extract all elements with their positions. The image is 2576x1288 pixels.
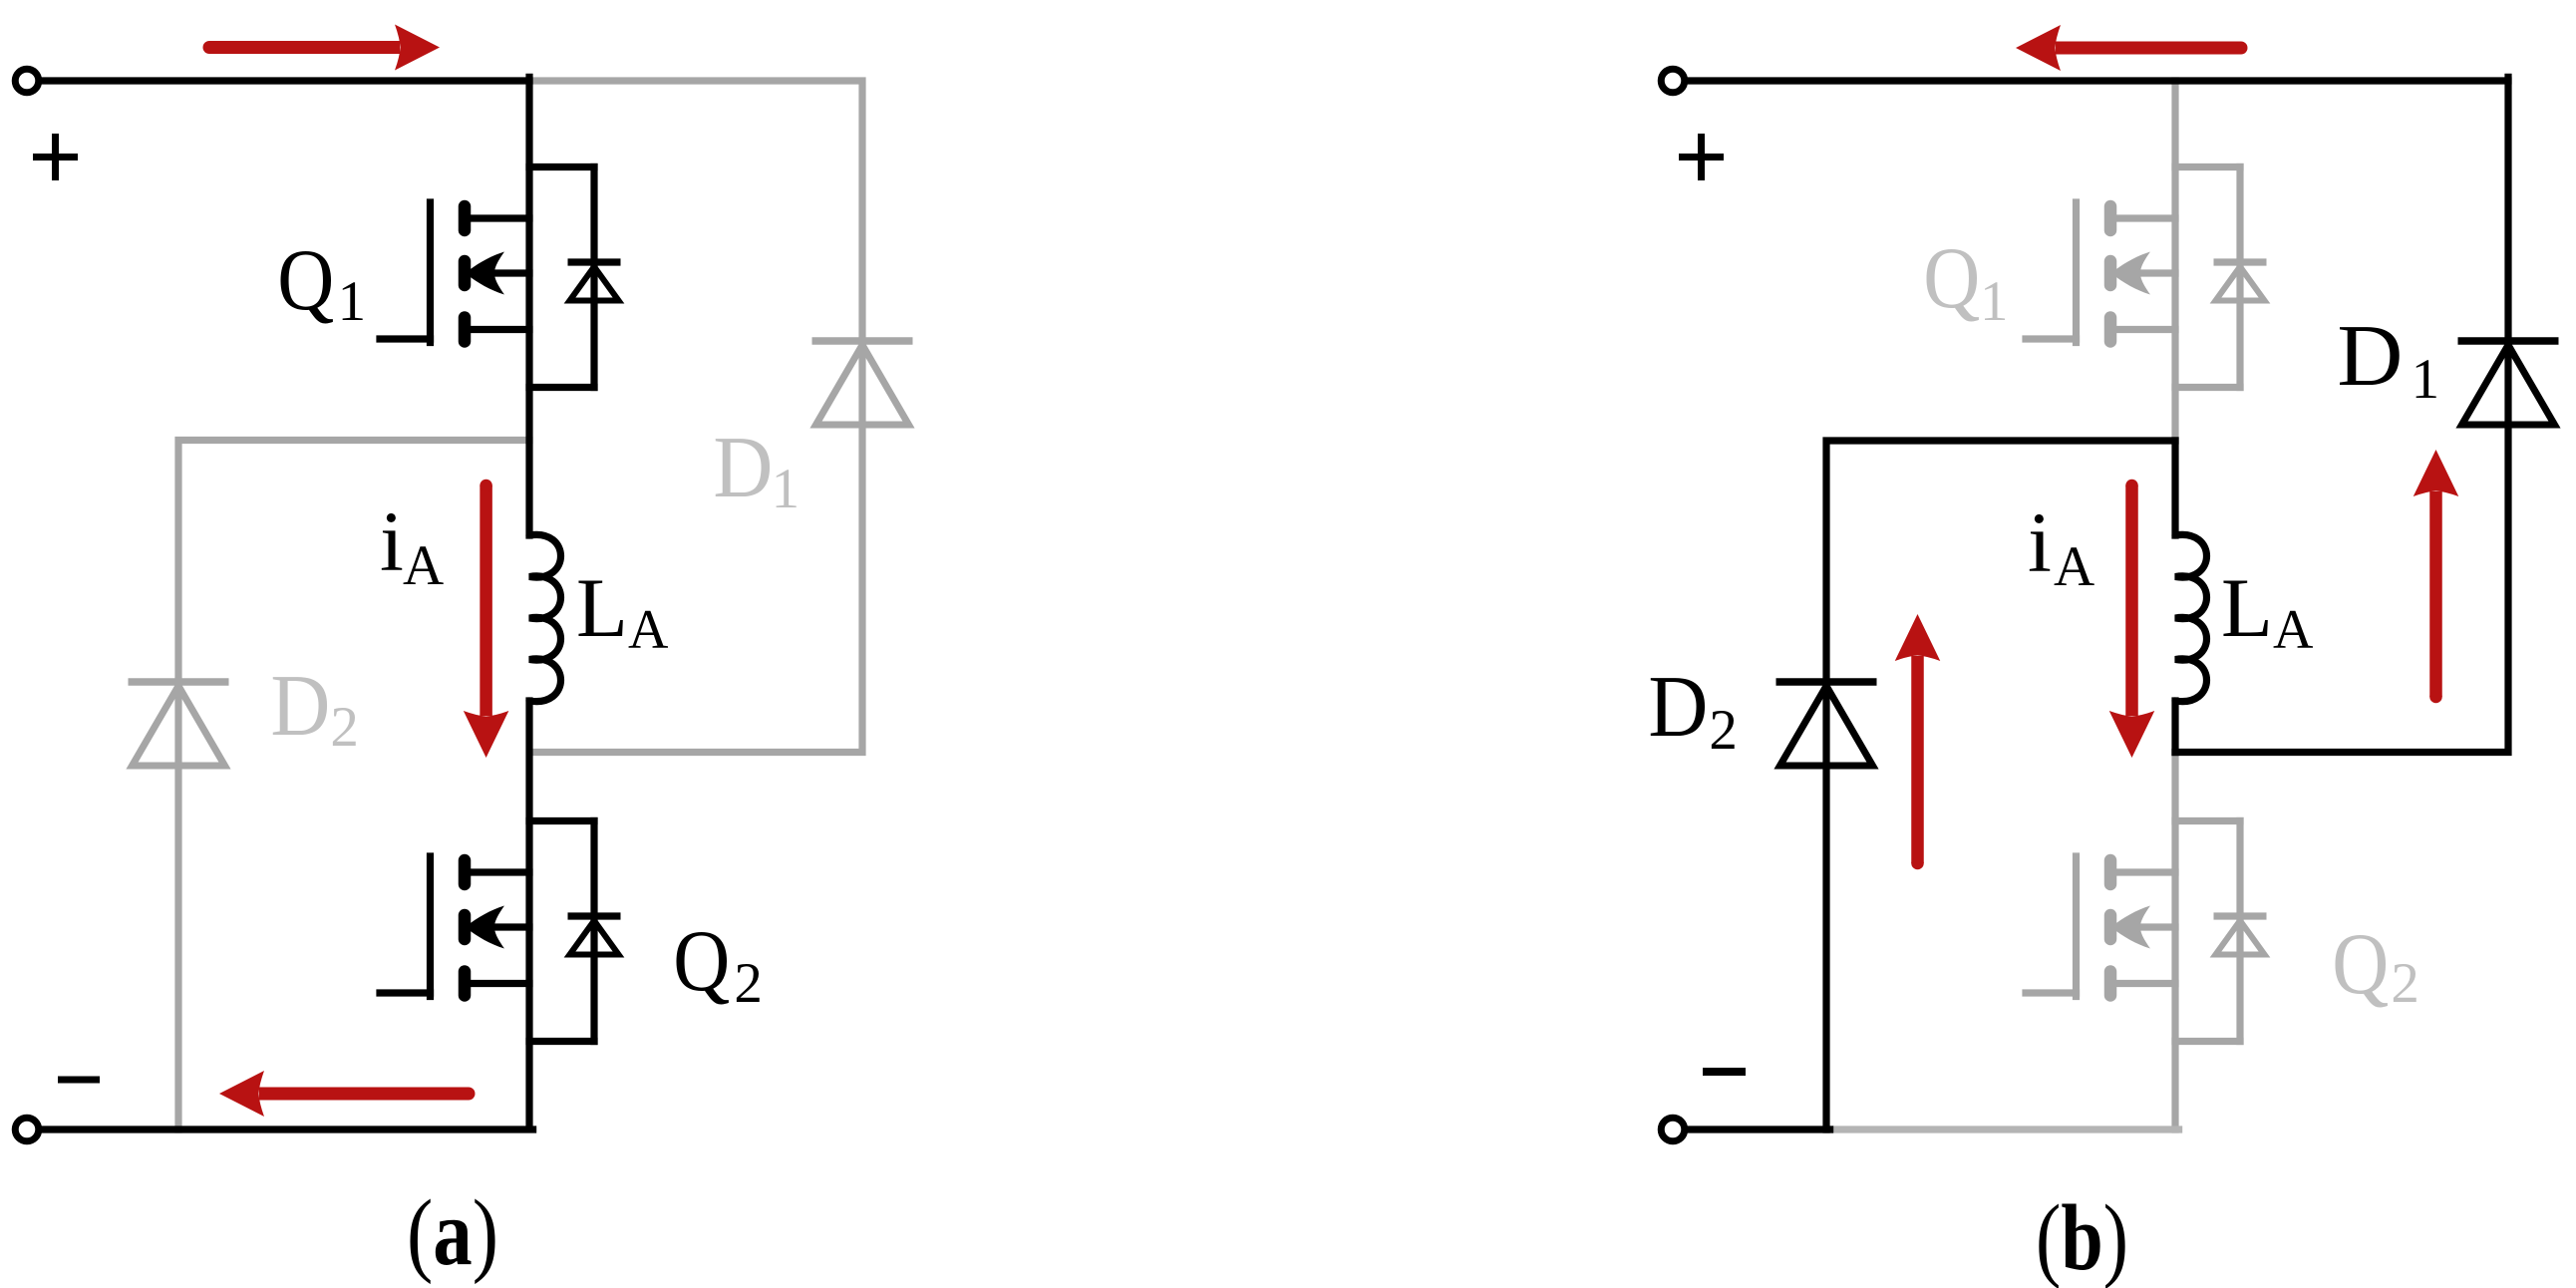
- transistor Q1 (b, grey/off): gate lead: [2026, 335, 2077, 342]
- transistor Q1 (b, grey/off): source lead: [2115, 326, 2175, 333]
- caption (b): [2036, 1186, 2128, 1288]
- transistor Q2 (b, grey/off): gate line: [2073, 856, 2080, 997]
- label Q1 (b, grey): [1923, 230, 2008, 333]
- wire: mid horizontal to D2 (b): [1826, 441, 2175, 678]
- transistor Q2 (b, grey/off): body arrow: [2111, 906, 2151, 949]
- transistor Q1 (a): body contact bar: [459, 261, 472, 285]
- label Q2 (b, grey): [2332, 916, 2419, 1015]
- wire: top rail (a), grey continuation to D1 branch: [532, 81, 862, 337]
- current arrow: iA through inductor (a), pointing down: [464, 480, 509, 758]
- transistor Q1 (a): drain lead: [470, 214, 529, 221]
- svg-text:L: L: [2221, 561, 2273, 655]
- current arrow: through D2 (b), pointing up: [1895, 614, 1941, 869]
- svg-text:Q: Q: [1923, 230, 1980, 327]
- label LA (b): [2221, 561, 2314, 661]
- svg-text:L: L: [576, 561, 628, 655]
- svg-text:(b): (b): [2036, 1186, 2128, 1288]
- diode D2 (b): anode triangle: [1780, 686, 1873, 766]
- transistor Q2 (a): source stub: [529, 1038, 594, 1045]
- inductor LA (a) coil: [529, 534, 561, 701]
- transistor Q2 (a): body-diode branch wire: [590, 821, 597, 1042]
- svg-text:Q: Q: [2332, 916, 2389, 1013]
- current arrow: iA through inductor (b), pointing down: [2109, 480, 2155, 758]
- transistor Q1 (b, grey/off): drain lead: [2115, 214, 2175, 221]
- wire: bottom rail (a): [41, 1126, 533, 1132]
- transistor Q2 (a): source lead: [470, 980, 529, 987]
- diode D1 (a, grey/off): cathode bar: [812, 337, 913, 345]
- transistor Q2 (b, grey/off): drain lead: [2115, 868, 2175, 875]
- diode D2 (b): cathode bar: [1776, 678, 1877, 686]
- wire: grey Q1 drain vertical (b): [2171, 81, 2178, 441]
- caption (a): [407, 1181, 498, 1285]
- svg-text:1: 1: [2412, 348, 2440, 411]
- transistor Q1 (a): body arrow: [466, 252, 505, 295]
- transistor Q2 (b, grey/off): body-diode cathode bar: [2214, 912, 2267, 919]
- node: - terminal (b): [1661, 1118, 1685, 1141]
- transistor Q2 (a): gate lead: [380, 989, 431, 996]
- transistor Q2 (a): gate line: [427, 856, 434, 997]
- wire: D2 branch lower vertical (b): [1822, 686, 1829, 1129]
- svg-text:2: 2: [2391, 952, 2419, 1015]
- inductor LA (b) coil: [2175, 534, 2207, 701]
- polarity + sign (b): [1679, 134, 1724, 180]
- label D1 (b): [2337, 308, 2439, 411]
- transistor Q1 (a): drain contact bar: [459, 206, 472, 230]
- svg-text:D: D: [1648, 659, 1708, 756]
- polarity - sign (a): [58, 1077, 100, 1084]
- transistor Q1 (b, grey/off): source stub: [2175, 384, 2240, 391]
- wire: below inductor (b): [2171, 701, 2178, 753]
- svg-text:i: i: [2028, 494, 2052, 590]
- wire: right D1 branch upper (b): [2504, 77, 2511, 337]
- transistor Q2 (a): drain lead: [470, 868, 529, 875]
- transistor Q1 (a): source contact bar: [459, 318, 472, 342]
- svg-text:A: A: [2054, 535, 2094, 598]
- svg-text:Q: Q: [673, 913, 730, 1010]
- transistor Q2 (b, grey/off): drain stub: [2175, 817, 2240, 824]
- transistor Q1 (b, grey/off): drain contact bar: [2104, 206, 2117, 230]
- transistor Q1 (a): drain stub: [529, 163, 594, 170]
- transistor Q2 (b, grey/off): gate lead: [2026, 989, 2077, 996]
- transistor Q1 (a): gate line: [427, 202, 434, 343]
- diode D1 (b): anode triangle: [2462, 345, 2555, 425]
- label D2 (a, grey): [270, 658, 359, 759]
- wire: D2 loop lower vertical (a): [174, 686, 181, 1129]
- transistor Q2 (a): body-diode triangle: [570, 921, 619, 955]
- current arrow: through D1 (b), pointing up: [2414, 450, 2459, 703]
- transistor Q2 (a): drain contact bar: [459, 860, 472, 884]
- svg-text:D: D: [2337, 308, 2403, 405]
- wire: top rail (b): [1687, 77, 2508, 84]
- svg-text:2: 2: [330, 696, 359, 759]
- label LA (a): [576, 561, 669, 661]
- diode D2 (a, grey/off): cathode bar: [129, 678, 229, 686]
- transistor Q2 (b, grey/off): body-diode branch wire: [2236, 821, 2243, 1042]
- polarity - sign (b): [1703, 1068, 1746, 1076]
- wire: main vertical mid with inductor (b): [2171, 441, 2178, 535]
- wire: main vertical lower (a): [525, 701, 532, 1126]
- diode D1 (b): cathode bar: [2458, 337, 2559, 345]
- wire: light grey bottom return (b): [1828, 1126, 2179, 1132]
- transistor Q2 (b, grey/off): body contact bar: [2104, 915, 2117, 939]
- label iA (a): [380, 493, 444, 597]
- svg-text:Q: Q: [277, 232, 334, 329]
- transistor Q1 (b, grey/off): body contact bar: [2104, 261, 2117, 285]
- wire: bottom rail black (b): [1687, 1126, 1830, 1132]
- transistor Q2 (a): body arrow: [466, 906, 505, 949]
- diode D1 (a, grey/off): anode triangle: [816, 345, 909, 425]
- transistor Q2 (b, grey/off): body-diode triangle: [2216, 921, 2265, 955]
- transistor Q1 (b, grey/off): body lead: [2138, 269, 2175, 276]
- polarity + sign (a): [33, 134, 78, 180]
- transistor Q2 (b, grey/off): drain contact bar: [2104, 860, 2117, 884]
- transistor Q2 (b, grey/off): source stub: [2175, 1038, 2240, 1045]
- transistor Q1 (b, grey/off): body-diode cathode bar: [2214, 258, 2267, 265]
- transistor Q2 (b, grey/off): source contact bar: [2104, 972, 2117, 996]
- transistor Q1 (b, grey/off): drain stub: [2175, 163, 2240, 170]
- transistor Q1 (b, grey/off): gate line: [2073, 202, 2080, 343]
- wire: right D1 branch lower + bottom of loop (b): [2175, 345, 2508, 753]
- svg-text:A: A: [403, 534, 444, 597]
- svg-text:1: 1: [338, 270, 367, 333]
- svg-text:D: D: [270, 658, 330, 755]
- wire: D1 loop lower segment (a): [531, 345, 862, 753]
- svg-text:1: 1: [772, 458, 801, 520]
- wire: main vertical upper (a): [525, 77, 532, 535]
- transistor Q2 (a): body-diode cathode bar: [568, 912, 621, 919]
- svg-text:A: A: [628, 599, 669, 661]
- transistor Q2 (b, grey/off): source lead: [2115, 980, 2175, 987]
- label D1 (a, grey): [713, 420, 800, 520]
- svg-text:A: A: [2273, 599, 2314, 661]
- node: - terminal (a): [15, 1118, 39, 1141]
- current arrow: top rail (b), pointing left: [2016, 25, 2248, 71]
- current arrow: return current bottom (a), pointing left: [219, 1071, 476, 1117]
- wire: D2 loop (a): top horizontal and left vertical: [178, 441, 529, 679]
- transistor Q2 (a): body lead: [492, 923, 529, 930]
- label Q1 (a): [277, 232, 366, 333]
- transistor Q1 (a): gate lead: [380, 335, 431, 342]
- node: + terminal (a): [15, 69, 39, 93]
- transistor Q2 (a): source contact bar: [459, 972, 472, 996]
- transistor Q2 (a): drain stub: [529, 817, 594, 824]
- transistor Q1 (b, grey/off): source contact bar: [2104, 318, 2117, 342]
- transistor Q1 (a): body-diode cathode bar: [568, 258, 621, 265]
- wire: grey Q2 source vertical (b): [2171, 753, 2178, 1130]
- wire: top rail (a) black: [41, 77, 529, 84]
- diode D2 (a, grey/off): anode triangle: [133, 686, 225, 766]
- transistor Q1 (a): source lead: [470, 326, 529, 333]
- transistor Q1 (a): source stub: [529, 384, 594, 391]
- transistor Q1 (a): body-diode branch wire: [590, 167, 597, 388]
- svg-text:D: D: [713, 420, 773, 516]
- svg-text:2: 2: [1709, 699, 1738, 762]
- svg-text:1: 1: [1980, 270, 2009, 333]
- node: + terminal (b): [1661, 69, 1685, 93]
- svg-text:i: i: [380, 493, 404, 589]
- transistor Q1 (b, grey/off): body-diode branch wire: [2236, 167, 2243, 388]
- transistor Q1 (a): body-diode triangle: [570, 267, 619, 301]
- current arrow: input current top (a), pointing right: [203, 25, 441, 71]
- label Q2 (a): [673, 913, 763, 1015]
- transistor Q1 (b, grey/off): body-diode triangle: [2216, 267, 2265, 301]
- transistor Q2 (b, grey/off): body lead: [2138, 923, 2175, 930]
- label iA (b): [2028, 494, 2094, 598]
- svg-text:2: 2: [734, 952, 763, 1015]
- label D2 (b): [1648, 659, 1738, 762]
- transistor Q1 (a): body lead: [492, 269, 529, 276]
- transistor Q1 (b, grey/off): body arrow: [2111, 252, 2151, 295]
- svg-text:(a): (a): [407, 1181, 498, 1285]
- transistor Q2 (a): body contact bar: [459, 915, 472, 939]
